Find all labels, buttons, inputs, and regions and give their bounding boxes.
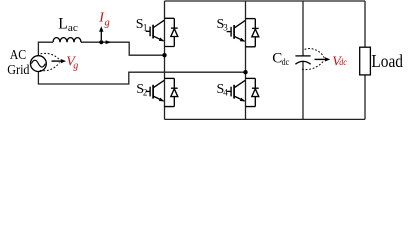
svg-text:g: g — [105, 17, 110, 28]
svg-text:ac: ac — [68, 23, 78, 34]
top rail — [165, 0, 366, 2]
bottom rail — [165, 118, 366, 120]
node right-leg midpoint dot — [243, 70, 247, 74]
svg-text:L: L — [58, 15, 67, 32]
svg-text:dc: dc — [282, 58, 290, 68]
load leg upper — [364, 1, 366, 47]
wire direction arrowhead (right) after Ig node — [106, 40, 112, 44]
wire: Ig node to left leg midpoint (step down) — [101, 42, 164, 55]
IGBT S2 — [146, 78, 178, 106]
Vdc dashed measurement arc — [302, 49, 324, 70]
svg-text:Grid: Grid — [7, 63, 29, 78]
wire: source top to inductor — [38, 42, 53, 56]
Vg dashed measurement arc — [40, 53, 60, 70]
Vg arrow — [52, 60, 63, 62]
load rectangle — [360, 47, 371, 75]
capacitor leg lower — [302, 61, 304, 119]
capacitor leg upper — [302, 1, 304, 56]
node left-leg midpoint dot — [162, 53, 166, 57]
IGBT S3 — [227, 19, 259, 47]
svg-text:g: g — [73, 60, 78, 71]
wire: source bottom to right leg midpoint (step up) — [38, 72, 245, 85]
wire: inductor to Ig node — [81, 41, 101, 43]
Vdc arrow — [315, 58, 327, 60]
left bridge leg — [164, 1, 166, 119]
capacitor top plate — [295, 55, 310, 57]
svg-text:2: 2 — [143, 87, 148, 97]
node Ig junction dot — [99, 40, 103, 44]
inductor L_ac coil — [53, 38, 81, 43]
svg-text:3: 3 — [223, 22, 228, 32]
svg-text:4: 4 — [223, 87, 228, 97]
IGBT S4 — [227, 78, 259, 106]
svg-text:Load: Load — [371, 51, 403, 71]
Ig current arrow (up) — [100, 31, 102, 40]
svg-text:1: 1 — [143, 22, 148, 32]
AC source circle — [31, 56, 47, 72]
sine wave inside source — [31, 60, 45, 67]
IGBT S1 — [146, 18, 178, 46]
svg-text:dc: dc — [339, 58, 347, 68]
capacitor curved plate — [295, 61, 310, 64]
right bridge leg — [245, 1, 247, 119]
svg-text:AC: AC — [10, 48, 27, 63]
load leg lower — [364, 75, 366, 120]
